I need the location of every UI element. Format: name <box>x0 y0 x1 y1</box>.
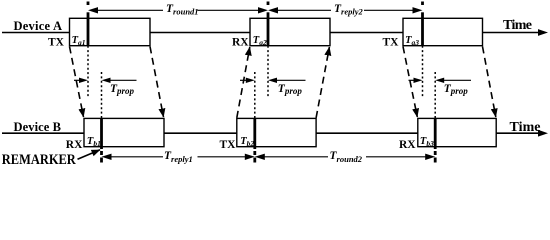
svg-text:Device B: Device B <box>14 120 62 134</box>
svg-text:TX: TX <box>48 37 65 49</box>
svg-text:RX: RX <box>66 139 83 151</box>
svg-text:Time: Time <box>510 120 541 135</box>
svg-text:Device A: Device A <box>14 19 63 33</box>
svg-text:REMARKER: REMARKER <box>2 152 76 167</box>
svg-text:Time: Time <box>503 18 532 33</box>
svg-text:TX: TX <box>383 37 400 49</box>
svg-text:RX: RX <box>232 37 249 49</box>
svg-text:TX: TX <box>220 139 237 151</box>
svg-text:RX: RX <box>399 139 416 151</box>
